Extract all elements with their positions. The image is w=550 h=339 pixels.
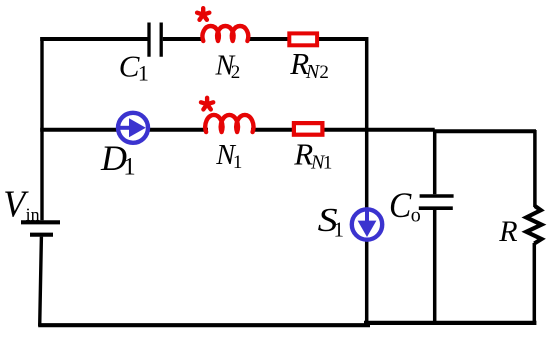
source Vin battery plate long: [21, 220, 60, 224]
inductor N1: [205, 115, 253, 132]
capacitor Co plate bottom: [419, 206, 453, 210]
dot marker N2 asterisk: [197, 8, 209, 20]
svg-text:C: C: [119, 48, 140, 83]
capacitor Co plate top: [420, 194, 454, 198]
wire bottom horizontal right: [364, 321, 536, 325]
switch S1: [352, 209, 382, 239]
diode D1: [118, 113, 148, 143]
svg-text:in: in: [26, 205, 40, 225]
resistor RN1: [294, 123, 323, 135]
wire top horizontal: [40, 37, 368, 41]
dot marker N1 asterisk: [201, 98, 213, 110]
svg-text:o: o: [411, 204, 421, 226]
svg-text:1: 1: [334, 217, 345, 241]
wire bottom horizontal left: [38, 323, 370, 327]
svg-text:2: 2: [231, 62, 241, 83]
svg-text:R: R: [498, 215, 517, 248]
wire left vertical: [40, 37, 42, 326]
resistor RN2: [289, 33, 317, 45]
resistor R zigzag: [526, 206, 541, 244]
svg-text:1: 1: [323, 152, 333, 173]
wire middle horizontal: [40, 130, 536, 132]
source Vin battery plate short: [30, 233, 53, 237]
inductor N2: [202, 26, 248, 41]
svg-text:1: 1: [123, 154, 136, 181]
svg-text:C: C: [389, 185, 412, 225]
wire Co branch vertical: [433, 130, 437, 325]
svg-text:1: 1: [138, 61, 149, 86]
wire S1 branch vertical: [365, 37, 369, 325]
svg-text:1: 1: [233, 152, 243, 173]
svg-text:2: 2: [319, 62, 329, 83]
capacitor C1: [149, 23, 161, 57]
wire right vertical: [533, 130, 537, 324]
